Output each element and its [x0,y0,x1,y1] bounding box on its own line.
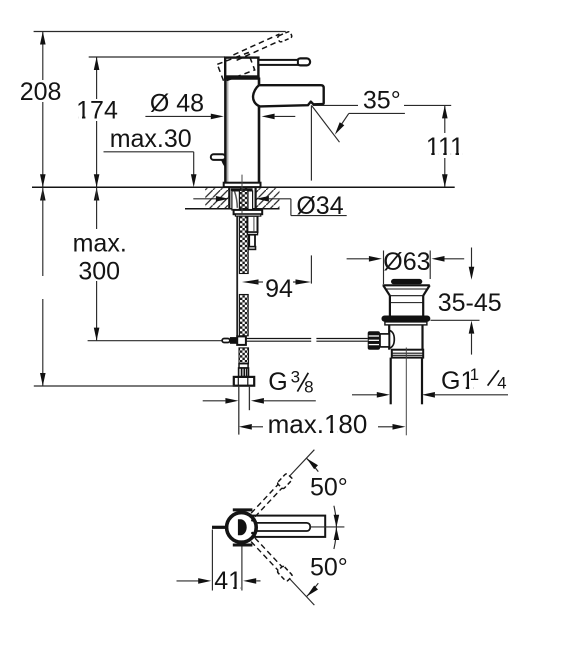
svg-text:max.30: max.30 [110,125,192,153]
svg-text:max.: max. [73,230,127,258]
svg-text:4: 4 [497,374,506,393]
svg-text:max.180: max.180 [268,409,368,439]
svg-text:300: 300 [78,257,120,285]
svg-text:Ø 48: Ø 48 [150,89,204,117]
svg-text:50°: 50° [310,474,348,502]
svg-text:35-45: 35-45 [438,289,502,317]
svg-text:94: 94 [265,275,293,303]
svg-text:174: 174 [76,97,118,125]
svg-text:208: 208 [20,78,62,106]
svg-text:50°: 50° [310,553,348,581]
svg-text:3: 3 [291,367,300,386]
svg-text:1: 1 [470,365,479,384]
svg-text:35°: 35° [363,86,401,114]
svg-text:41: 41 [214,567,242,595]
svg-text:111: 111 [426,133,464,161]
svg-text:Ø34: Ø34 [296,192,343,220]
svg-text:Ø63: Ø63 [383,248,430,276]
svg-text:8: 8 [304,378,313,397]
svg-text:G: G [268,368,287,396]
